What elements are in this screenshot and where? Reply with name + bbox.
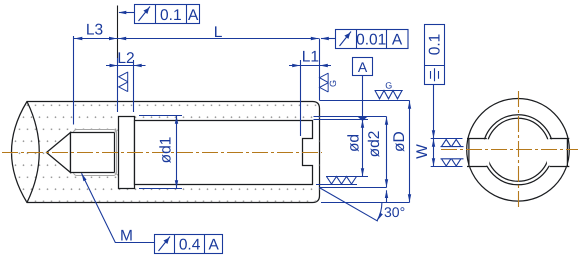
end view outer circle <box>467 99 570 202</box>
symmetry feature control frame 0.1 (vertical) <box>425 25 445 139</box>
ød2 outside arrow stub <box>385 190 388 203</box>
svg-text:L2: L2 <box>117 50 134 67</box>
svg-text:L3: L3 <box>86 22 103 39</box>
slot cutouts white <box>470 139 490 165</box>
dimension ød1 <box>139 116 182 189</box>
datum A triangle <box>357 116 368 121</box>
feature control frame FCF2 circular runout 0.01 A <box>321 30 408 49</box>
thread point cone <box>47 133 71 173</box>
dimension L3 <box>74 22 118 125</box>
datum shoulder extension line (blue lower) <box>117 58 119 112</box>
svg-text:W: W <box>414 144 431 159</box>
slot edges left <box>467 139 487 167</box>
svg-text:A: A <box>392 32 403 49</box>
svg-text:M: M <box>120 227 133 244</box>
raw stock dot texture <box>12 102 320 203</box>
svg-text:0.1: 0.1 <box>427 34 444 56</box>
svg-text:L: L <box>214 24 223 41</box>
svg-text:ød2: ød2 <box>366 131 383 158</box>
dimension ød <box>314 120 369 177</box>
slot edges right <box>550 139 570 167</box>
30 degree chamfer dimension <box>320 188 405 221</box>
dimension L1 <box>289 48 331 136</box>
shaft bottom extension line <box>316 184 357 186</box>
end view centerline horizontal <box>441 149 578 151</box>
threaded stub M <box>71 133 115 173</box>
slot face finish triangles (end view) <box>441 139 464 166</box>
svg-text:A: A <box>358 59 368 75</box>
bar break lens right arc <box>27 102 39 203</box>
end view centerline vertical <box>518 91 520 209</box>
collar <box>119 117 135 189</box>
svg-text:ød: ød <box>346 134 363 152</box>
raw stock bar <box>12 102 320 203</box>
svg-text:A: A <box>188 7 199 24</box>
dimension L2 <box>106 50 146 112</box>
svg-text:0.1: 0.1 <box>160 7 182 24</box>
svg-text:0.01: 0.01 <box>356 32 386 49</box>
svg-text:G: G <box>385 81 392 91</box>
end view bore circles <box>483 115 553 185</box>
right end extension line <box>319 39 321 101</box>
dimension L <box>118 24 319 41</box>
right shoulder finish symbol with G <box>320 73 338 92</box>
feature control frame FCF1 circular runout 0.1 A <box>118 5 199 24</box>
feature control frame FCF3 circular runout 0.4 A <box>155 235 223 254</box>
svg-text:øD: øD <box>391 131 408 152</box>
svg-text:ød1: ød1 <box>157 137 174 164</box>
svg-text:30°: 30° <box>384 204 405 220</box>
thread blank ghost <box>74 130 117 176</box>
svg-text:0.4: 0.4 <box>179 237 201 254</box>
svg-text:G: G <box>328 80 338 87</box>
datum shoulder extension line (black) <box>117 6 119 59</box>
dimension ød2 <box>314 117 389 188</box>
thread end chamfer ticks <box>115 130 119 176</box>
svg-text:L1: L1 <box>302 48 319 65</box>
top surface finish triangles with G <box>375 81 403 99</box>
shaft body with end slot <box>135 121 313 185</box>
main centerline <box>2 152 322 154</box>
dimension W <box>414 139 463 167</box>
bottom surface finish triangles <box>327 177 357 185</box>
svg-text:A: A <box>209 237 220 254</box>
shoulder surface finish symbol (double triangle) <box>119 72 128 92</box>
dimension øD <box>320 101 412 203</box>
datum A box and leader <box>353 58 373 117</box>
thread callout M leader <box>80 173 155 245</box>
white clearance at right end <box>302 120 319 185</box>
